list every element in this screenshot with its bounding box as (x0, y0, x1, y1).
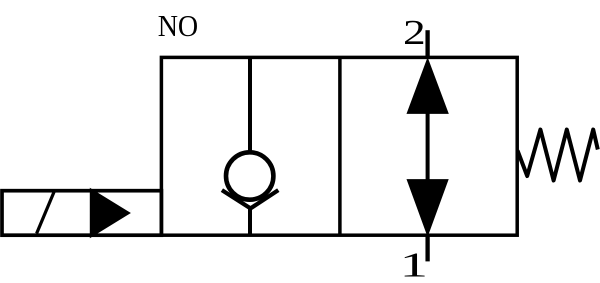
solenoid diagonal slash (37, 192, 55, 234)
check valve ball (circle) (226, 152, 273, 199)
wire: arrow connector (426, 112, 430, 181)
svg-text:NO: NO (158, 8, 199, 43)
wire: check-valve lower stem (248, 207, 252, 236)
position divider (338, 57, 342, 235)
svg-text:2: 2 (403, 13, 426, 52)
port 2 line (425, 30, 429, 57)
flow arrow up (407, 59, 448, 114)
valve body (two-position envelope) (161, 57, 517, 235)
check valve seat (V) (222, 190, 278, 208)
solenoid arrow (filled triangle) (91, 190, 129, 237)
svg-text:1: 1 (400, 245, 428, 283)
flow arrow down (407, 180, 448, 236)
spring (518, 130, 598, 181)
solenoid box (2, 191, 161, 236)
port 1 line (425, 235, 429, 261)
wire: check-valve upper stem (248, 58, 252, 154)
